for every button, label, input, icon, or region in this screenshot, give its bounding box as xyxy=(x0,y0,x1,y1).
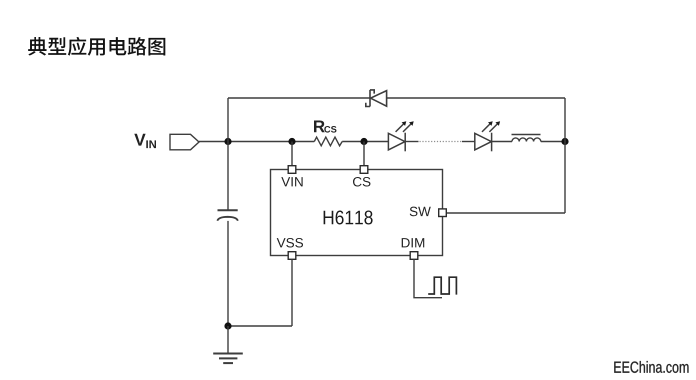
label CS subscript xyxy=(324,126,336,133)
input terminal VIN tag xyxy=(170,134,199,150)
wire: VSS pin down xyxy=(291,259,293,326)
capacitor C1 xyxy=(217,210,237,220)
pin VIN xyxy=(288,166,296,174)
diode D2 Schottky freewheel (cathode left) xyxy=(366,90,387,107)
wire: right vertical rail xyxy=(564,98,566,213)
node: VIN pin junction xyxy=(288,138,295,145)
label R xyxy=(314,121,325,133)
LED D2 xyxy=(475,121,500,151)
pin CS xyxy=(360,166,368,174)
wire: SW pin horizontal xyxy=(447,212,566,214)
label H6118 xyxy=(324,211,373,225)
wire: DIM pin down and right xyxy=(414,259,442,297)
wire: main rail xyxy=(199,141,314,143)
wire: VSS to ground node xyxy=(228,325,292,327)
LED D1 xyxy=(388,121,413,151)
ground xyxy=(213,326,243,363)
wire: LED D1 cathode stub xyxy=(405,141,418,143)
node: SW/inductor/diode junction xyxy=(561,138,568,145)
IC U1 H6118 body xyxy=(271,170,443,256)
wire: LED D2 to inductor xyxy=(492,141,512,143)
node: ground junction xyxy=(224,322,231,329)
title text 典型应用电路图 xyxy=(28,37,165,56)
PWM dimming waveform xyxy=(428,277,456,294)
node: input/capacitor junction xyxy=(224,138,231,145)
wire: inductor to right rail xyxy=(541,141,565,143)
wire: CS pin stub xyxy=(363,142,365,167)
wire: top rail right segment xyxy=(387,97,565,99)
wire: resistor to LED D1 xyxy=(342,141,388,143)
pin SW xyxy=(439,209,447,217)
wire: LED D2 anode stub xyxy=(462,141,475,143)
wire: VIN pin stub xyxy=(291,142,293,167)
pin DIM xyxy=(410,252,418,260)
wire: dotted series link xyxy=(420,141,462,143)
resistor RCS xyxy=(314,137,342,146)
wire: left vertical upper xyxy=(227,98,229,210)
wire: left vertical lower xyxy=(227,221,229,326)
watermark EEChina.com xyxy=(614,361,688,373)
wire: top rail left segment xyxy=(228,97,370,99)
node: CS pin junction xyxy=(360,138,367,145)
label IN subscript xyxy=(146,140,156,148)
inductor L1 xyxy=(512,135,541,142)
label V xyxy=(134,134,145,146)
pin VSS xyxy=(288,252,296,260)
